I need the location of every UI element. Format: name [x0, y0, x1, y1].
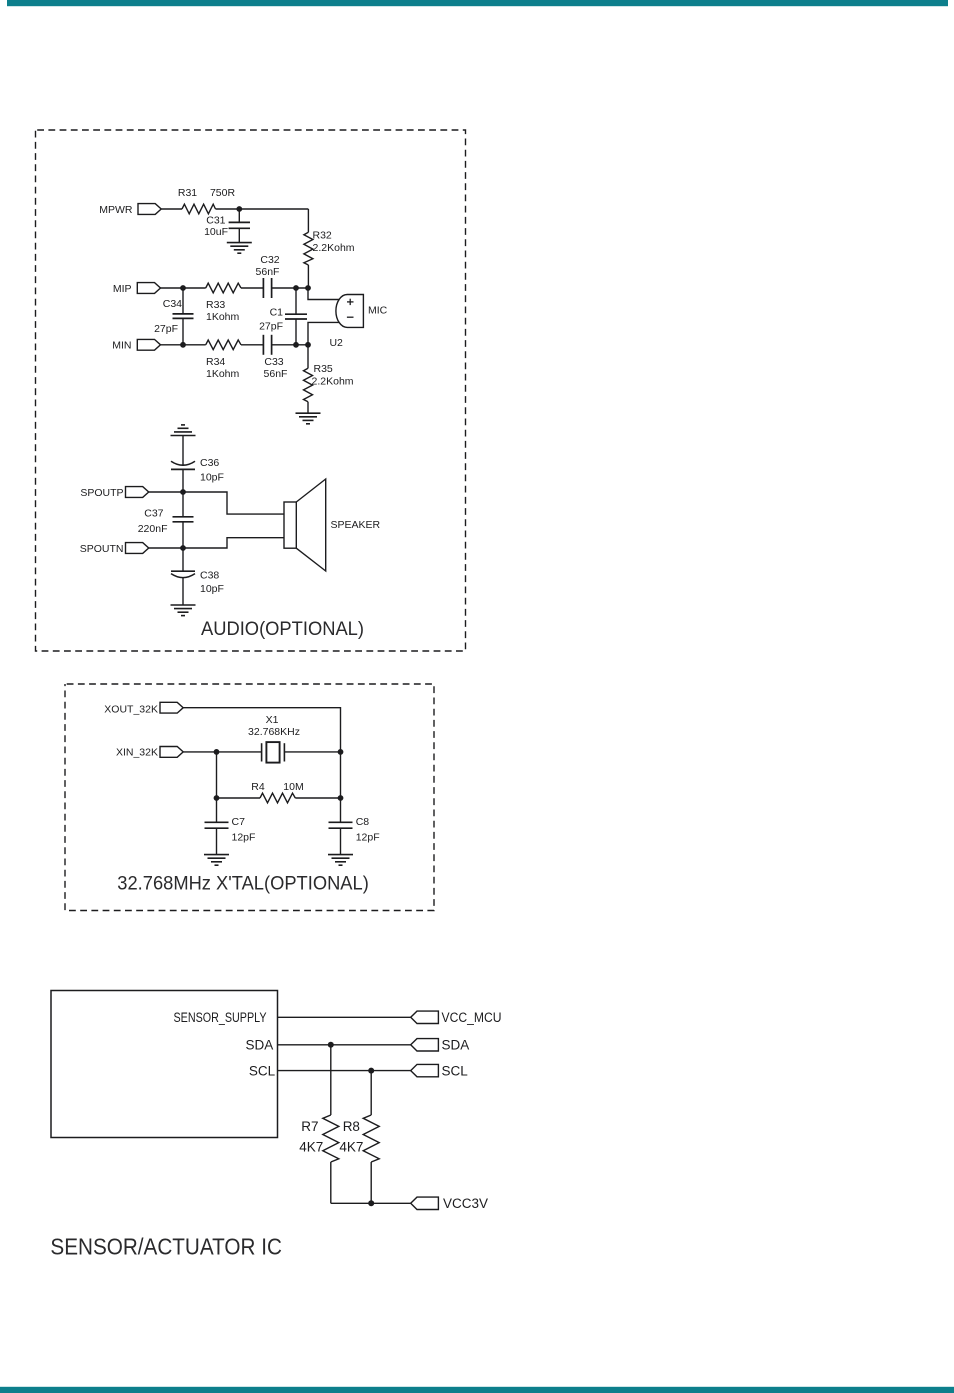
junction node SDA/R7 [328, 1042, 334, 1048]
connector MIN [112, 339, 160, 351]
svg-text:1Kohm: 1Kohm [206, 311, 240, 323]
junction node mic bottom [305, 342, 311, 348]
capacitor C33 [263, 335, 308, 355]
resistor R33 [206, 283, 241, 293]
svg-text:VCC3V: VCC3V [443, 1196, 488, 1211]
svg-text:10pF: 10pF [200, 471, 224, 483]
AUDIO dashed enclosure box [36, 130, 466, 651]
speaker symbol [284, 479, 326, 571]
wire XIN node down to R4 [216, 752, 218, 798]
inverted ground above C36 [171, 425, 196, 436]
junction node rail/R8 [368, 1200, 374, 1206]
wire R34 to C33 [241, 344, 263, 346]
capacitor C36 [171, 461, 195, 492]
wire R4 right segment [295, 797, 340, 799]
resistor R34 [206, 340, 241, 350]
capacitor C38 [171, 548, 195, 605]
sensor IC block [51, 991, 278, 1138]
capacitor C34 [173, 288, 194, 345]
svg-text:4K7: 4K7 [339, 1139, 363, 1154]
svg-text:SCL: SCL [249, 1064, 276, 1079]
microphone U2 body [336, 295, 363, 328]
connector VCC3V [411, 1196, 488, 1211]
resistor R31 [182, 204, 216, 214]
svg-text:C34: C34 [163, 298, 182, 310]
ground below C8 [328, 855, 353, 866]
svg-text:XIN_32K: XIN_32K [116, 747, 158, 759]
svg-text:27pF: 27pF [154, 323, 178, 335]
svg-text:C32: C32 [260, 254, 279, 266]
svg-text:32.768KHz: 32.768KHz [248, 726, 300, 738]
connector SCL [411, 1064, 469, 1079]
svg-text:R32: R32 [313, 229, 332, 241]
wire R4 left segment [217, 797, 261, 799]
svg-text:MIN: MIN [112, 340, 131, 352]
junction node C1 top [293, 285, 299, 291]
svg-text:SENSOR/ACTUATOR IC: SENSOR/ACTUATOR IC [50, 1233, 282, 1259]
wire MIP to R33 [161, 287, 206, 289]
svg-text:U2: U2 [329, 337, 343, 349]
ground below R35 [296, 413, 321, 424]
junction node SPOUTP/C36 [180, 489, 186, 495]
wire R32 to MIP node [307, 265, 309, 288]
svg-text:SCL: SCL [442, 1064, 469, 1079]
connector VCC_MCU [411, 1010, 502, 1025]
svg-text:56nF: 56nF [256, 266, 280, 278]
capacitor C1 [285, 288, 307, 345]
svg-text:R7: R7 [301, 1119, 318, 1134]
junction node SCL/R8 [368, 1068, 374, 1074]
capacitor C31 [229, 209, 250, 243]
svg-text:R33: R33 [206, 299, 225, 311]
svg-text:27pF: 27pF [259, 320, 283, 332]
XTAL dashed enclosure box [65, 684, 434, 911]
wire MIN to R34 [161, 344, 206, 346]
svg-text:1Kohm: 1Kohm [206, 368, 240, 380]
junction node XIN/C7 [214, 749, 220, 755]
svg-text:C37: C37 [144, 507, 163, 519]
svg-text:SPOUTN: SPOUTN [80, 543, 124, 555]
svg-text:R8: R8 [343, 1119, 360, 1134]
connector SPOUTN [80, 543, 149, 555]
junction node C1 bottom [293, 342, 299, 348]
svg-text:SDA: SDA [442, 1038, 470, 1053]
junction node at C31 tap [236, 206, 242, 212]
svg-text:10uF: 10uF [204, 226, 228, 238]
svg-text:C33: C33 [264, 356, 283, 368]
svg-text:AUDIO(OPTIONAL): AUDIO(OPTIONAL) [201, 618, 364, 640]
svg-text:C36: C36 [200, 457, 219, 469]
wire XOUT node down to R4 [340, 752, 342, 798]
wire R31 to corner [216, 208, 309, 210]
resistor R8 [363, 1071, 379, 1204]
svg-text:C8: C8 [356, 816, 370, 828]
svg-text:750R: 750R [210, 187, 236, 199]
junction node R4 left [214, 795, 220, 801]
junction node MIP/C34 [180, 285, 186, 291]
svg-text:10pF: 10pF [200, 583, 224, 595]
junction node R4 right [338, 795, 344, 801]
svg-text:MIC: MIC [368, 304, 388, 316]
svg-text:VCC_MCU: VCC_MCU [442, 1010, 502, 1025]
connector XIN_32K [116, 747, 183, 759]
wire SPOUTP to speaker corner [149, 492, 284, 514]
wire SPOUTN to speaker corner [149, 538, 284, 548]
svg-text:SDA: SDA [246, 1038, 274, 1053]
capacitor C37 [173, 492, 194, 548]
svg-text:R35: R35 [314, 363, 333, 375]
wire crystal to right column [284, 751, 340, 753]
svg-text:56nF: 56nF [264, 368, 288, 380]
connector MPWR [99, 204, 161, 216]
svg-text:C7: C7 [232, 816, 246, 828]
svg-text:C31: C31 [206, 214, 225, 226]
wire SCL to connector [278, 1070, 411, 1072]
wire mic plus lead [308, 288, 340, 300]
resistor R35 [304, 345, 313, 413]
resistor R4 [260, 793, 295, 803]
wire SDA to connector [278, 1044, 411, 1046]
svg-text:XOUT_32K: XOUT_32K [104, 704, 158, 716]
connector SPOUTP [80, 487, 148, 499]
connector SDA [411, 1038, 470, 1053]
junction node MIN/C34 [180, 342, 186, 348]
svg-text:R34: R34 [206, 356, 225, 368]
ground below C7 [204, 855, 229, 866]
svg-text:R4: R4 [251, 781, 265, 793]
svg-text:2.2Kohm: 2.2Kohm [312, 375, 354, 387]
svg-text:C38: C38 [200, 569, 219, 581]
wire ground to C36 [182, 436, 184, 465]
wire XOUT to crystal right column [183, 708, 340, 752]
junction node mic top [305, 285, 311, 291]
ground below C38 [171, 605, 196, 616]
svg-text:32.768MHz X'TAL(OPTIONAL): 32.768MHz X'TAL(OPTIONAL) [117, 873, 368, 895]
connector MIP [113, 283, 161, 295]
junction node XOUT column [338, 749, 344, 755]
ground below C31 [227, 243, 252, 254]
svg-text:SPOUTP: SPOUTP [80, 487, 123, 499]
svg-text:C1: C1 [270, 306, 284, 318]
resistor R32 [304, 232, 313, 265]
svg-text:SENSOR_SUPPLY: SENSOR_SUPPLY [174, 1010, 267, 1025]
wire R33 to C32 [241, 287, 263, 289]
svg-text:X1: X1 [266, 714, 279, 726]
capacitor C7 [205, 798, 229, 855]
capacitor C8 [329, 798, 353, 855]
svg-text:12pF: 12pF [356, 831, 380, 843]
svg-text:R31: R31 [178, 187, 197, 199]
svg-text:10M: 10M [283, 781, 303, 793]
top teal header bar [7, 0, 948, 6]
svg-text:12pF: 12pF [232, 831, 256, 843]
wire MPWR to R31 [161, 208, 182, 210]
wire XIN to crystal [183, 751, 261, 753]
svg-text:220nF: 220nF [138, 523, 168, 535]
svg-text:SPEAKER: SPEAKER [331, 519, 381, 531]
wire pullup rail to VCC3V [331, 1202, 411, 1204]
crystal X1 [262, 742, 285, 763]
wire SENSOR_SUPPLY to VCC_MCU [278, 1016, 411, 1018]
svg-text:MIP: MIP [113, 283, 132, 295]
svg-text:4K7: 4K7 [299, 1139, 323, 1154]
capacitor C32 [263, 278, 308, 298]
wire mic minus lead [308, 322, 339, 344]
junction node SPOUTN/C37 [180, 545, 186, 551]
resistor R7 [323, 1045, 339, 1204]
svg-text:MPWR: MPWR [99, 204, 133, 216]
bottom teal footer bar [0, 1387, 954, 1393]
wire corner down to R32 [307, 209, 309, 232]
connector XOUT_32K [104, 702, 183, 715]
svg-text:2.2Kohm: 2.2Kohm [313, 242, 355, 254]
